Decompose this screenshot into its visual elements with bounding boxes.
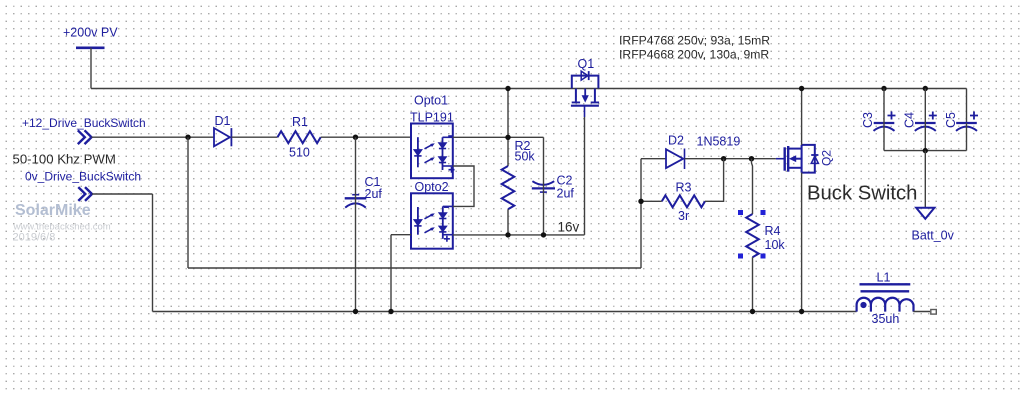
svg-text:+200v PV: +200v PV — [63, 26, 118, 40]
power rail bar +200v — [76, 46, 105, 49]
wire R2 branch from top rail — [507, 89, 509, 167]
junction Opto2 cathode on 0v rail — [388, 309, 393, 314]
wire 0v bottom rail — [153, 311, 857, 313]
wire ground stem — [924, 151, 926, 208]
junction ground stem — [923, 148, 928, 153]
svg-text:C2: C2 — [557, 174, 573, 188]
selection handle square R4 bottom-left — [738, 254, 743, 259]
svg-text:+12_Drive_BuckSwitch: +12_Drive_BuckSwitch — [22, 116, 146, 130]
junction R4 top — [749, 156, 754, 161]
svg-text:IRFP4668 200v, 130a, 9mR: IRFP4668 200v, 130a, 9mR — [619, 48, 769, 62]
junction R2 on top rail — [505, 86, 510, 91]
junction C2 bottom — [541, 232, 546, 237]
resistor R3 — [662, 181, 705, 224]
capacitor C1 — [345, 175, 383, 208]
wire C1 vertical — [355, 137, 357, 311]
resistor R2 — [502, 139, 536, 209]
junction Q2 source on 0v rail — [799, 309, 804, 314]
junction R3 left on vertical — [638, 199, 643, 204]
wire from +200v bar down to top rail — [90, 48, 92, 89]
watermark SolarMike — [13, 202, 111, 244]
transistor Q2 buck switch — [776, 145, 834, 173]
capacitor C5 — [944, 112, 978, 131]
wire D2 anode feed — [641, 158, 666, 160]
port square output — [931, 310, 937, 315]
wire Q2 source down to 0v rail — [801, 173, 803, 312]
svg-text:C5: C5 — [944, 112, 958, 128]
optocoupler U Opto2 — [411, 180, 453, 249]
svg-text:Buck Switch: Buck Switch — [807, 183, 917, 205]
diode D1 — [214, 114, 231, 146]
selection handle square R4 bottom-right — [761, 254, 766, 259]
svg-text:Q1: Q1 — [578, 57, 595, 71]
wire lower mid rail — [188, 267, 641, 269]
svg-text:Q2: Q2 — [820, 150, 834, 166]
junction R2 on gate net — [505, 135, 510, 140]
svg-text:35uh: 35uh — [872, 312, 900, 326]
wire capacitor bottom bus — [884, 150, 967, 152]
junction R3 top — [721, 156, 726, 161]
capacitor C4 — [903, 112, 937, 131]
svg-text:16v: 16v — [558, 220, 580, 235]
port chevron +12_Drive_BuckSwitch — [78, 130, 92, 144]
svg-text:Batt_0v: Batt_0v — [912, 229, 955, 243]
wire up from mid rail to D2 net — [640, 159, 642, 268]
svg-text:Opto1: Opto1 — [414, 94, 448, 108]
junction C3 on top rail — [881, 86, 886, 91]
selection handle square R4 top-right — [761, 210, 766, 215]
selection handle square R4 top-left — [738, 210, 743, 215]
optocoupler U Opto1 TLP191 — [410, 94, 455, 179]
svg-text:10k: 10k — [765, 238, 786, 252]
wire Opto2 left pin — [391, 234, 411, 236]
svg-text:Opto2: Opto2 — [415, 180, 449, 194]
junction C4 on top rail — [923, 86, 928, 91]
svg-text:D2: D2 — [668, 134, 684, 148]
svg-text:TLP191: TLP191 — [410, 111, 454, 125]
junction R4 bottom on 0v rail — [750, 309, 755, 314]
resistor R1 — [278, 115, 321, 160]
wire L1 to port — [913, 311, 930, 313]
wire 16v rail Opto2 plus to Q1 gate lead — [453, 234, 585, 236]
junction Q2 drain on rail — [799, 86, 804, 91]
svg-text:R1: R1 — [292, 115, 308, 129]
wire C4 vertical — [924, 89, 926, 151]
svg-text:1N5819: 1N5819 — [697, 135, 741, 149]
wire 0v chevron to corner — [92, 193, 153, 195]
wire Q2 drain from top rail — [801, 89, 803, 145]
wire Opto1 plus to Opto2 minus series link — [453, 166, 474, 206]
port chevron 0v_Drive_BuckSwitch — [78, 187, 92, 201]
wire R1 to Opto1 — [321, 136, 411, 138]
wire branch down from input to lower mid rail — [187, 137, 189, 268]
svg-text:L1: L1 — [877, 271, 891, 285]
wire Opto1 output top to C2 corner — [453, 136, 544, 138]
inductor L1 — [857, 271, 914, 326]
wire 0v vertical down — [152, 194, 154, 312]
junction at D1 input branch — [185, 135, 190, 140]
svg-text:2019/6/8: 2019/6/8 — [13, 232, 56, 244]
capacitor C3 — [861, 112, 896, 131]
wire C5 vertical lower — [966, 123, 968, 151]
svg-text:2uf: 2uf — [365, 187, 383, 201]
wire top rail +200v — [91, 88, 967, 90]
svg-text:0v_Drive_BuckSwitch: 0v_Drive_BuckSwitch — [25, 170, 141, 184]
svg-text:SolarMike: SolarMike — [15, 202, 91, 219]
wire R3 left lead — [641, 200, 662, 202]
wire Q1 gate lead down to 16v rail — [584, 117, 586, 235]
svg-text:R3: R3 — [676, 181, 692, 195]
svg-text:R4: R4 — [765, 224, 781, 238]
wire R3 right lead up — [705, 159, 724, 202]
note IRFP text — [619, 34, 770, 62]
wire C2 vertical — [543, 137, 545, 235]
wire R4 bottom lead — [752, 257, 754, 311]
diode D2 — [666, 134, 685, 170]
svg-text:510: 510 — [289, 146, 310, 160]
svg-text:3r: 3r — [678, 209, 689, 223]
wire D2 to Q2 gate — [685, 158, 776, 160]
svg-text:50-100 Khz PWM: 50-100 Khz PWM — [13, 152, 116, 167]
transistor Q1 — [571, 57, 599, 117]
wire D1 to R1 — [231, 136, 277, 138]
wire R4 top lead — [752, 159, 753, 214]
svg-text:C4: C4 — [903, 112, 917, 128]
svg-text:C3: C3 — [861, 112, 875, 128]
wire C5 top lead from rail corner — [966, 89, 968, 124]
wire C3 vertical — [883, 89, 885, 151]
svg-text:50k: 50k — [515, 150, 536, 164]
wire Opto2 cathode down to 0v rail — [390, 235, 392, 312]
wire R2 bottom to 16v rail — [507, 209, 509, 235]
junction R2 bottom — [505, 232, 510, 237]
ground Batt_0v — [912, 208, 955, 243]
capacitor C2 — [532, 174, 575, 201]
svg-text:IRFP4768 250v; 93a, 15mR: IRFP4768 250v; 93a, 15mR — [619, 34, 770, 48]
wire input +12 to D1 — [92, 136, 214, 138]
svg-text:2uf: 2uf — [557, 187, 575, 201]
junction C1 bottom on 0v rail — [353, 309, 358, 314]
junction at C1 top — [353, 135, 358, 140]
resistor R4 — [746, 214, 785, 257]
svg-text:D1: D1 — [215, 114, 231, 128]
